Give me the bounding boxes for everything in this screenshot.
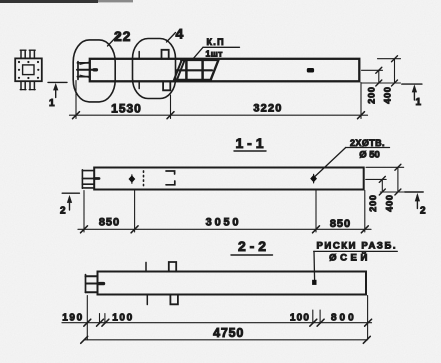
weld tick bottom (plan) bbox=[138, 81, 140, 88]
svg-text:РИСКИ РАЗБ.: РИСКИ РАЗБ. bbox=[316, 241, 397, 252]
dim line 190/100 ... 100/800 bbox=[62, 322, 372, 324]
right dims 200/400 (plan) bbox=[362, 59, 401, 83]
embedded tab bottom (2-2) bbox=[170, 295, 178, 305]
column section rebar dots bbox=[18, 61, 40, 79]
dim extension lines (plan) bbox=[76, 81, 361, 119]
column section inner hole bbox=[23, 65, 34, 75]
callout ellipse 22 bbox=[73, 40, 115, 102]
leader 2xOTV bbox=[315, 148, 346, 177]
svg-text:2 - 2: 2 - 2 bbox=[238, 238, 266, 254]
section mark 2 (right of 1-1) bbox=[405, 192, 424, 209]
riski leader vertical bbox=[313, 251, 316, 280]
svg-text:1шт: 1шт bbox=[206, 49, 223, 59]
beam outline (section 1-1) bbox=[94, 168, 364, 190]
svg-text:1530: 1530 bbox=[111, 102, 142, 116]
dim ticks (plan) bbox=[73, 112, 365, 119]
left outlets (2-2) bbox=[86, 275, 105, 293]
svg-text:190: 190 bbox=[62, 313, 84, 324]
dim ticks (1-1) bbox=[81, 226, 369, 233]
dim extensions (1-1) bbox=[84, 191, 365, 233]
svg-text:4750: 4750 bbox=[213, 326, 244, 340]
hidden dotted line (1-1) bbox=[143, 171, 145, 186]
scan border top bar bbox=[0, 0, 98, 3]
section mark 1 (left) bbox=[48, 82, 67, 97]
svg-text:400: 400 bbox=[385, 194, 395, 211]
weld tick bottom (2-2) bbox=[146, 295, 148, 305]
svg-text:850: 850 bbox=[330, 218, 351, 230]
column section outline bbox=[15, 58, 42, 81]
embedded tab bottom (plan) bbox=[163, 81, 170, 90]
svg-text:400: 400 bbox=[383, 86, 393, 103]
hole 2 diamond (1-1) bbox=[313, 174, 315, 183]
column section top tabs bbox=[20, 50, 35, 58]
embedded tab top (plan) bbox=[162, 50, 169, 59]
svg-text:2: 2 bbox=[60, 206, 66, 217]
beam outline (section 2-2) bbox=[98, 272, 367, 295]
leader label 22 bbox=[108, 35, 119, 47]
svg-text:К.П: К.П bbox=[207, 37, 225, 47]
column section bottom tabs bbox=[20, 81, 35, 89]
svg-text:850: 850 bbox=[99, 217, 120, 229]
svg-text:200: 200 bbox=[368, 194, 378, 211]
svg-text:1: 1 bbox=[416, 97, 422, 108]
dim line 850/3050/850 bbox=[78, 228, 371, 230]
weld tick top (plan) bbox=[138, 52, 140, 59]
hole mark (plan) bbox=[307, 68, 314, 73]
dim ticks 4750 bbox=[81, 336, 371, 343]
svg-text:4: 4 bbox=[176, 26, 184, 42]
hidden bracket bottom corner (1-1) bbox=[166, 181, 175, 185]
section mark 1 (right) bbox=[402, 84, 422, 100]
svg-text:22: 22 bbox=[114, 28, 131, 44]
left outlets (1-1) bbox=[82, 170, 99, 188]
dim line 1530/3220 bbox=[70, 114, 368, 116]
hole 1 diamond (1-1) bbox=[131, 175, 133, 184]
embedded tab top (2-2) bbox=[169, 262, 176, 272]
svg-text:2: 2 bbox=[420, 206, 426, 217]
svg-text:200: 200 bbox=[367, 86, 377, 103]
svg-text:1 - 1: 1 - 1 bbox=[235, 135, 263, 151]
svg-text:1: 1 bbox=[49, 98, 55, 109]
svg-text:3050: 3050 bbox=[206, 217, 242, 229]
dim extensions (2-2) bbox=[87, 296, 367, 340]
K.P packing grid bbox=[174, 60, 219, 81]
svg-text:Ø 50: Ø 50 bbox=[359, 150, 380, 161]
beam outline (plan view) bbox=[90, 59, 360, 82]
dim ticks (2-2) bbox=[84, 319, 372, 326]
section mark 2 (left of 1-1) bbox=[62, 193, 79, 210]
svg-text:3220: 3220 bbox=[253, 103, 282, 115]
hidden bracket top corner (1-1) bbox=[166, 171, 175, 174]
left rebar outlets (plan) bbox=[77, 62, 96, 80]
K.P leader and labels bbox=[203, 46, 240, 48]
callout ellipse 4 bbox=[133, 39, 176, 99]
riski mark on beam bbox=[312, 280, 316, 285]
svg-text:800: 800 bbox=[331, 313, 357, 324]
svg-text:100: 100 bbox=[112, 313, 134, 324]
riski leader shelf bbox=[314, 250, 398, 252]
leader label 4 bbox=[167, 33, 176, 43]
svg-text:ØСЕЙ: ØСЕЙ bbox=[329, 252, 371, 264]
weld tick top (2-2) bbox=[145, 262, 147, 271]
svg-text:100: 100 bbox=[290, 313, 310, 324]
dim line 4750 bbox=[84, 339, 367, 341]
right dims 200/400 (1-1) bbox=[366, 167, 404, 192]
svg-text:2ХØТВ.: 2ХØТВ. bbox=[350, 138, 385, 148]
